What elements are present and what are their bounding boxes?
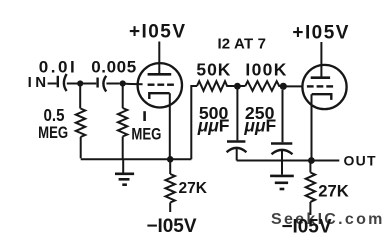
svg-text:50K: 50K: [196, 59, 230, 79]
wire V2 cathode lead down: [311, 94, 313, 158]
value label 1 (R2): [143, 111, 146, 121]
wire bottom-left bus: [81, 158, 192, 160]
svg-text:0.5: 0.5: [44, 105, 65, 125]
wire C2 to node B: [106, 83, 119, 85]
tube V1 cathode: [149, 93, 169, 99]
svg-text:0.005: 0.005: [91, 57, 136, 76]
node D junction dot: [234, 83, 241, 90]
ground G1: [115, 159, 134, 184]
resistor R6 27K: [306, 161, 315, 216]
svg-text:SeekIC.com: SeekIC.com: [271, 211, 385, 228]
capacitor C1 0.01: [58, 74, 67, 91]
wire V1 cathode lead down: [169, 93, 171, 157]
resistor R2 1 MEG: [118, 86, 127, 159]
tube V2 plate: [311, 42, 330, 78]
tube V1 plate: [148, 42, 172, 75]
svg-text:−I05V: −I05V: [147, 216, 197, 237]
wire riser to 50K rail: [191, 86, 197, 159]
tube V1 envelope: [138, 63, 182, 107]
wire node E to V2 grid: [287, 85, 303, 87]
resistor R3 27K: [166, 159, 175, 212]
tube V2 cathode: [312, 94, 332, 100]
node B junction dot: [120, 80, 126, 86]
svg-text:μμF: μμF: [197, 116, 230, 136]
capacitor C2 0.005: [98, 76, 107, 92]
svg-text:MEG: MEG: [131, 124, 161, 143]
svg-text:+I05V: +I05V: [292, 23, 348, 44]
wire C1 to node A: [67, 83, 78, 85]
svg-text:I00K: I00K: [245, 59, 286, 79]
resistor R4 50K: [197, 81, 234, 91]
wire node A to C2: [83, 83, 97, 85]
capacitor C4 250uuF: [271, 90, 293, 175]
svg-text:I2 AT 7: I2 AT 7: [217, 36, 266, 53]
svg-text:IN: IN: [28, 74, 47, 91]
tube V2 envelope: [302, 65, 346, 109]
ground G2: [270, 176, 294, 189]
tube V1 grid dashes: [148, 83, 174, 85]
resistor R1 0.5 MEG: [76, 86, 85, 158]
svg-text:27K: 27K: [318, 181, 349, 200]
svg-text:μμF: μμF: [243, 116, 276, 136]
tube V2 grid dashes: [307, 85, 333, 87]
node E junction dot: [280, 83, 287, 90]
svg-text:27K: 27K: [178, 180, 207, 197]
resistor R5 100K: [241, 81, 282, 91]
node C junction dot: [167, 156, 174, 163]
wire IN lead: [48, 83, 57, 85]
svg-text:OUT: OUT: [344, 153, 376, 169]
svg-text:MEG: MEG: [38, 123, 68, 142]
node F junction dot: [308, 157, 315, 164]
svg-text:+I05V: +I05V: [129, 22, 185, 43]
capacitor C3 500uuF: [227, 90, 247, 161]
wire output bus: [237, 160, 340, 162]
node A junction dot: [77, 80, 83, 86]
wire node B to V1 grid: [125, 83, 142, 85]
